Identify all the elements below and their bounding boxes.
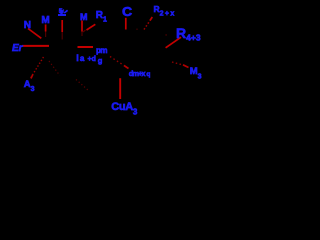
wire 5/2 to hub <box>61 20 63 32</box>
node A3 <box>24 80 35 93</box>
wire to R4+3 <box>166 37 181 48</box>
dotted wire expr to dm+x <box>110 57 124 66</box>
wire N to hub <box>28 29 41 39</box>
dotted wire to M3 <box>172 62 183 65</box>
node M1 <box>41 16 49 26</box>
node Er <box>12 44 23 54</box>
node M2 <box>80 13 88 22</box>
node R1 <box>96 11 107 24</box>
wire Er to hub <box>22 45 49 47</box>
stray faint dot near R4+3 path <box>165 34 167 35</box>
node R4+3 <box>176 26 201 42</box>
node C <box>122 6 132 19</box>
wire R1 to hub <box>87 24 96 30</box>
wires layer <box>0 0 220 123</box>
node M3 <box>190 67 202 81</box>
node pm <box>96 47 107 55</box>
stray faint dot near R2+x path <box>136 29 137 30</box>
node dm+x <box>129 70 151 79</box>
wire C down <box>125 18 127 30</box>
dotted wire hub down-right short <box>49 61 60 76</box>
wire hub to pm <box>78 46 94 48</box>
node R2+x <box>154 5 176 18</box>
node 5/2 underlined <box>59 9 63 16</box>
node N <box>24 21 31 31</box>
node expr A2+Bq <box>76 54 85 63</box>
wire M2 to hub <box>81 21 83 32</box>
node 5/2 slash <box>64 10 67 13</box>
dotted wire hub to A3 <box>30 57 44 79</box>
wire Am+x node to CuA3 <box>119 78 121 99</box>
node CuA3 <box>111 102 137 117</box>
dotted wire R2+x down-left <box>144 21 150 30</box>
wire M1 to hub <box>45 24 47 31</box>
dotted wire toward CuA3 <box>76 80 89 91</box>
